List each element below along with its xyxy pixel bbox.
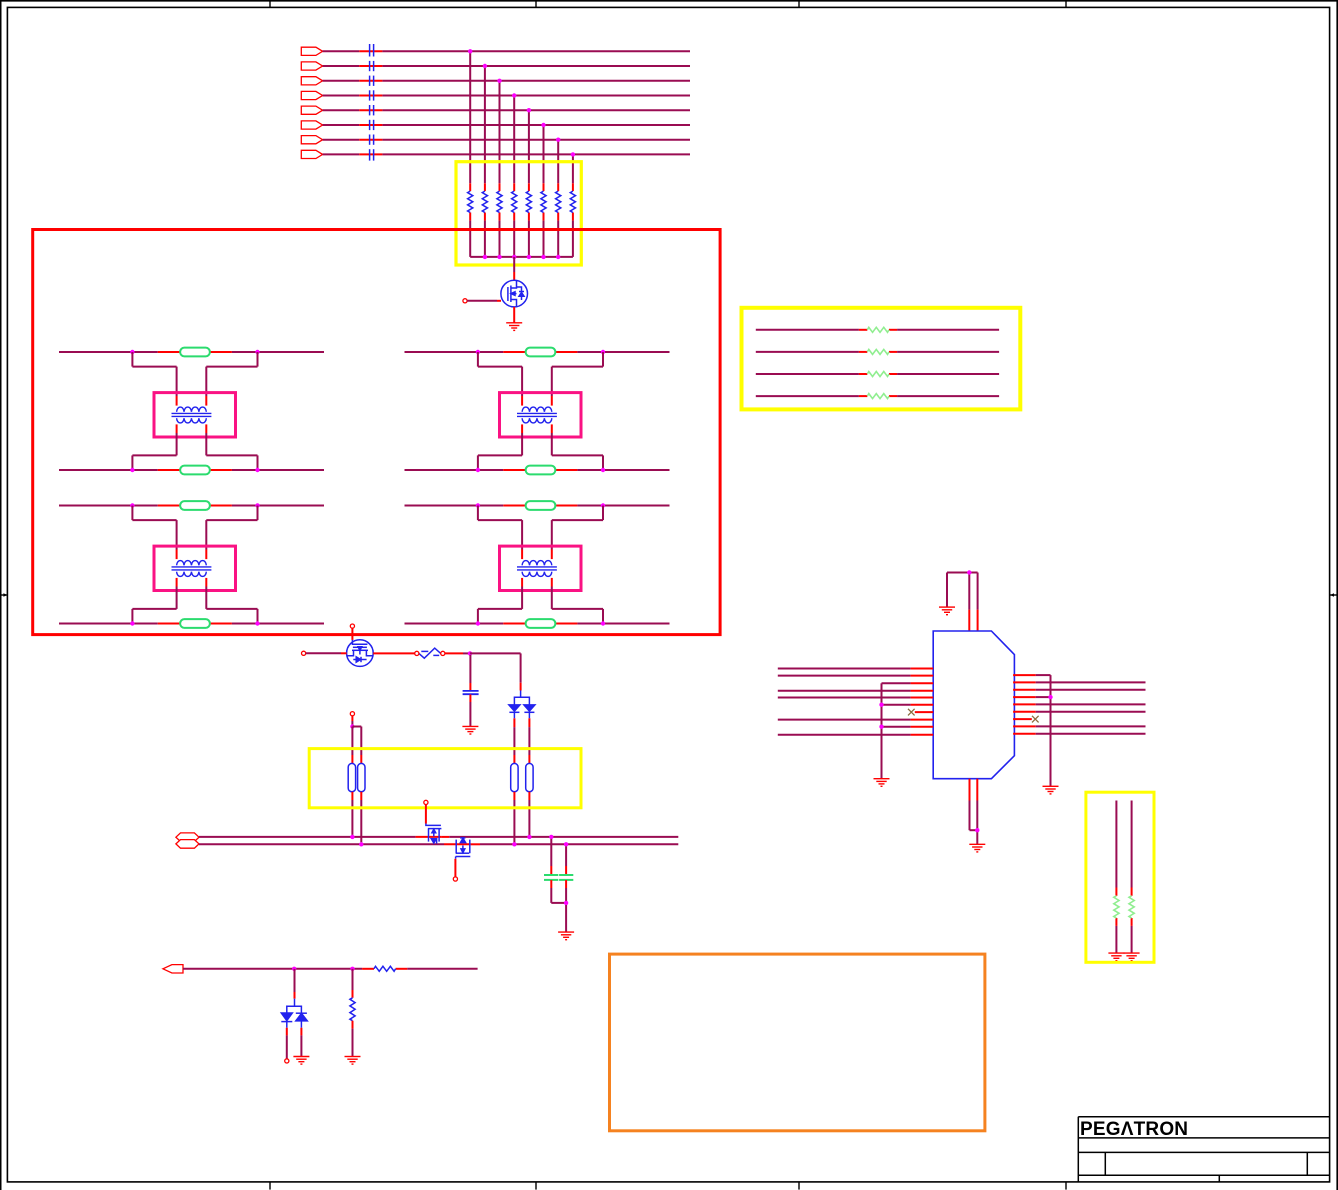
transformer group T4 top wire [405,505,670,507]
U1 right no-connect pin wire [1013,718,1032,720]
junction dot row 4 [512,93,516,97]
junction dots T1 bottom [130,468,260,472]
input port arrow 6 [301,121,322,129]
wire port to Q2 drain [351,628,353,640]
wires T2 transformer to bottom [478,424,603,470]
fuse F4 [511,763,518,791]
R10 lower wire [352,1021,354,1057]
capacitor C2 [544,875,558,880]
U1 right pin 1 wire [1013,674,1050,676]
wires T1 transformer to bottom [132,424,257,470]
wire drop column 7 [557,140,559,257]
junction dots T3 top [130,503,260,507]
ground R15 [1108,953,1124,961]
transformer group T4 bottom wire [405,623,670,625]
junction dots T3 bottom [130,621,260,625]
resistor R15 [1114,896,1119,918]
ferrite bead T2A [526,348,556,357]
input port arrow 5 [301,106,322,114]
resistor R16 [1129,896,1134,918]
port below D2 [285,1059,289,1063]
mosfet Q2 [347,640,374,667]
node junction after fuse [468,651,472,655]
junction U1 top [967,570,971,574]
resistor R12 [867,349,889,354]
junction U1 bottom [975,828,979,832]
series resistor net 2 [756,351,999,353]
U1 left strap wires [882,683,934,778]
Q1 source to ground wire [513,307,515,323]
transformer T1 [172,407,212,423]
D2 left lead to port [286,1028,288,1059]
junction dots T4 bottom [476,621,606,625]
ferrite bead T2B [526,466,556,475]
transformer T4 [517,561,557,577]
wire Q2 to fuse F1 [373,652,415,654]
junction dot row 5 [527,108,531,112]
capacitor C1 lower wire [469,694,471,726]
wire row 2 [323,65,690,67]
capacitor C3 [559,875,573,880]
junction dots T2 top [476,350,606,354]
yellow highlight box fuses [309,749,581,808]
wires into left fuse pair [352,727,361,764]
ground U1 left [874,779,890,787]
wires T2 top to transformer [478,352,603,406]
junction dot row 6 [541,123,545,127]
fuse F3 [358,763,365,791]
U1 right pin 2 wire [1013,681,1145,683]
D2 right lead to ground [300,1028,302,1057]
junction dots P3 net [292,967,355,971]
input port arrow 1 [301,47,322,55]
fuse F1 [419,648,441,658]
ground U1 right [1043,786,1059,794]
wire drop column 1 [469,51,471,257]
mosfet Q3 [426,824,442,844]
ferrite bead T3B [180,619,210,628]
transformer group T2 bottom wire [405,469,670,471]
transformer group T2 top wire [405,351,670,353]
wire rail to Q1 drain [513,257,515,281]
wire drop column 8 [572,154,574,257]
wire left port to Q2 [306,652,347,654]
D1 leads down [514,718,529,763]
wire drop column 6 [543,125,545,257]
pink box transformer T3 [154,546,236,590]
Q3 gate wire [425,805,427,824]
U1 left pin 5 wire [778,697,933,699]
U1 right pin 8 wire [1013,725,1145,727]
Q4 gate wire [454,859,456,877]
wire row 4 [323,95,690,97]
wires bus to C2 C3 [551,839,566,875]
transformer group T3 top wire [59,505,324,507]
transformer group T1 top wire [59,351,324,353]
ground R16 [1124,953,1140,961]
transformer group T1 bottom wire [59,469,324,471]
transformer T3 [172,561,212,577]
ground R10 [345,1057,361,1065]
wires U1 bottom pins [970,779,978,844]
bus entry double slash [370,44,374,161]
dual diode D1 [509,691,535,719]
wires U1 top pins [947,573,978,632]
U1 left pin 4 wire [778,690,933,692]
wires T3 top to transformer [132,506,257,560]
bus junction dots [350,835,568,847]
wire row 8 [323,153,690,155]
wires below fuse pairs [352,792,529,845]
capacitor C1 [463,691,479,694]
pulldown net R16 [1131,801,1133,953]
pink box transformer T4 [500,546,582,590]
resistor R13 [867,372,889,377]
wire drop column 3 [499,81,501,257]
ferrite bead T1B [180,466,210,475]
junction dot row 2 [483,64,487,68]
wire port to junction [351,716,353,727]
termination resistor bank R1-R8 [468,191,576,212]
series resistor net 4 [756,395,999,397]
fuse F2 [348,763,355,791]
ferrite bead T3A [180,501,210,510]
U1 right strap vertical [1050,675,1052,786]
X no-connect right [1032,716,1039,723]
svg-text:PEGΛTRON: PEGΛTRON [1080,1119,1188,1140]
junction C2 C3 [564,901,568,905]
input port arrow 2 [301,62,322,70]
orange highlight box [610,954,985,1131]
junction dots T4 top [476,503,606,507]
Q1 gate port [463,299,467,303]
transformer T2 [517,407,557,423]
mosfet Q4 [456,838,471,859]
bus wire bottom [199,843,678,845]
ferrite bead T4A [526,501,556,510]
port above Q2 [350,624,354,628]
ground U1 top [939,607,955,615]
output port arrow P3 [163,965,183,973]
transformer group T3 bottom wire [59,623,324,625]
pink box transformer T1 [154,393,236,437]
junction left fuse pair [350,724,354,728]
junction dots U1 left strap [879,703,883,729]
resistor R14 [867,394,889,399]
fuse F5 [526,763,533,791]
junction dot row 7 [556,138,560,142]
resistor R9 [374,966,396,971]
wire P3 net [183,968,478,970]
U1 right pin 9 wire [1013,733,1145,735]
wire row 1 [323,50,690,52]
wire row 3 [323,80,690,82]
wire to R10 [352,969,354,998]
red highlight box magnetics section [33,230,720,635]
wires T4 top to transformer [478,506,603,560]
junction dot row 3 [497,79,501,83]
wire row 6 [323,124,690,126]
wire drop column 4 [513,96,515,257]
U1 right pin 3 wire [1013,689,1145,691]
wires T4 transformer to bottom [478,578,603,624]
X no-connect left [908,709,915,716]
bidirectional port P2 [176,840,199,849]
ferrite bead T1A [180,348,210,357]
wires T1 top to transformer [132,352,257,406]
ground C1 [462,726,478,734]
U1 right pin 4 wire [1013,696,1050,698]
Q1 gate wire [467,300,501,302]
ground D2 [293,1057,309,1065]
IC U1 body [933,631,1014,779]
U1 right pin 6 wire [1013,711,1145,713]
Q2 left port [302,651,306,655]
wire drop column 2 [484,66,486,257]
resistor R11 [867,327,889,332]
pink box transformer T2 [500,393,582,437]
yellow highlight box resistor bank [456,162,581,265]
wire drop column 5 [528,110,530,257]
junction dot row 1 [468,49,472,53]
capacitor C1 branch wire [469,655,471,690]
pulldown net R15 [1115,801,1117,953]
port above left fuse pair [350,712,354,716]
series resistor net 1 [756,329,999,331]
title block frame [1078,1117,1329,1182]
bidirectional port P1 [176,833,199,842]
input port arrow 8 [301,150,322,158]
no-connect pin U1 left [915,711,933,713]
Q3 gate port [424,800,428,804]
U1 left pin 1 wire [778,668,933,670]
ground Q1 [506,323,522,331]
junction U1 right strap [1048,695,1052,699]
U1 left pin 2 wire [778,675,933,677]
wires T3 transformer to bottom [132,578,257,624]
resistor R10 [350,998,355,1021]
mosfet Q1 [501,280,528,307]
yellow highlight box series resistors [742,308,1021,410]
wire row 5 [323,109,690,111]
wire node to diode branch [470,653,521,690]
ground U1 bottom [969,844,985,852]
ground C2 C3 [558,932,574,940]
resistor bank bottom rail [470,255,573,259]
U1 left pin 8 wire [778,719,933,721]
junction dot row 8 [571,152,575,156]
wire row 7 [323,139,690,141]
Q4 gate port [453,877,457,881]
junction dots T1 top [130,350,260,354]
U1 left pin 10 wire [778,734,933,736]
ESD dual diode D2 [281,999,307,1028]
input port arrow 7 [301,136,322,144]
series resistor net 3 [756,373,999,375]
wire to ESD diodes [294,969,296,999]
input port arrow 3 [301,77,322,85]
wire fuse to node [445,652,470,654]
yellow highlight box pulldowns [1086,792,1154,962]
U1 right pin 5 wire [1013,703,1145,705]
ferrite bead T4B [526,619,556,628]
junction dots T2 bottom [476,468,606,472]
bus wire top [199,836,678,838]
input port arrow 4 [301,91,322,99]
wires C2 C3 to ground [551,880,566,932]
